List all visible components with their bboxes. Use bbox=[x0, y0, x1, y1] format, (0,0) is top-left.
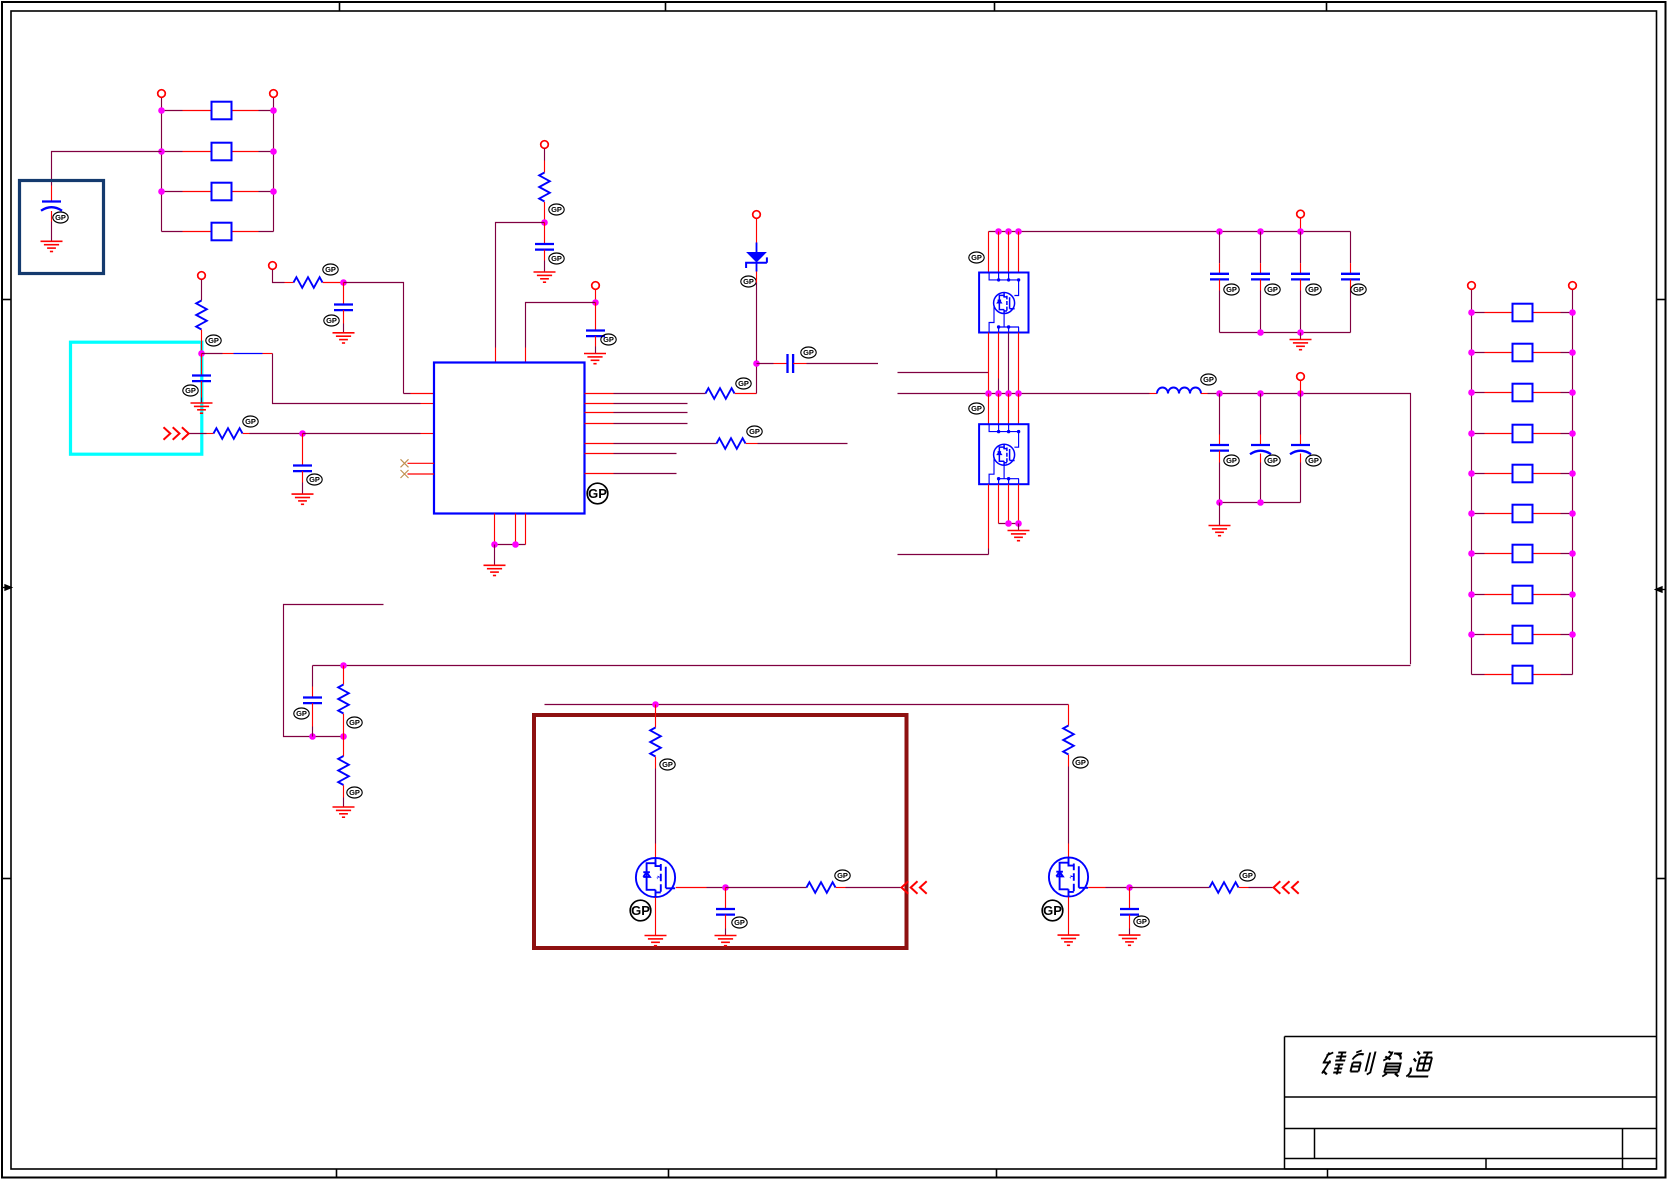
IC right pin4 wire bbox=[585, 423, 614, 425]
resistor R8 bbox=[338, 666, 349, 737]
ground (C2) bbox=[333, 333, 355, 343]
ground (C16) bbox=[715, 936, 737, 946]
ladder junction dots row 7 bbox=[1468, 550, 1475, 557]
wire R13 to connector bbox=[1239, 887, 1249, 889]
frame zone ticks bottom bbox=[337, 1169, 997, 1179]
ground (navy box) bbox=[41, 241, 63, 251]
transistor module U2 bbox=[979, 273, 1028, 333]
wire cap bottom rail lower group bbox=[1220, 502, 1301, 504]
wire node B to IC pin2 (mixed colors) bbox=[202, 354, 435, 404]
label U3 bbox=[969, 403, 984, 414]
wire cap bottom rail top group bbox=[1220, 332, 1351, 334]
capacitor C8 bbox=[1210, 232, 1229, 333]
resistor RL7 bbox=[1472, 545, 1573, 563]
ground (Q1) bbox=[645, 936, 667, 946]
wire R6 to node G bbox=[735, 393, 757, 395]
IC right pin7 wire bbox=[585, 473, 614, 475]
terminal J6 bbox=[592, 282, 600, 290]
title block bbox=[1285, 1037, 1657, 1179]
ground (top cap group) bbox=[1290, 340, 1312, 350]
frame zone ticks top bbox=[340, 3, 1327, 12]
IC bottom pins bbox=[495, 514, 526, 545]
IC right pin1 wire bbox=[585, 393, 614, 395]
label C13 bbox=[1265, 455, 1280, 466]
wire Q1 gate to node I bbox=[676, 887, 707, 889]
op-amp U1 main IC body bbox=[434, 363, 585, 514]
wire node J to R13 bbox=[1130, 887, 1210, 889]
transistor Q2 bbox=[1049, 857, 1088, 896]
ground (C5) bbox=[534, 272, 556, 282]
terminal J3 bbox=[269, 262, 277, 270]
capacitor C11 bbox=[1341, 232, 1360, 333]
label R6 bbox=[736, 378, 751, 389]
ground (C6) bbox=[584, 354, 606, 364]
resistor R12 bbox=[1063, 705, 1074, 858]
capacitor C9 bbox=[1251, 232, 1270, 333]
ladder junction dots row 1 bbox=[1468, 309, 1475, 316]
resistor R3 vertical bbox=[196, 301, 207, 330]
resistor ladder rails bbox=[1472, 290, 1573, 675]
ground (C4) bbox=[292, 494, 314, 504]
node F dots bbox=[491, 541, 498, 548]
node dots top bus bbox=[995, 228, 1304, 235]
wire gate feed line y704 bbox=[545, 704, 1069, 706]
label R10 bbox=[660, 759, 675, 770]
ground (lower cap group) bbox=[1209, 526, 1231, 536]
ladder junction dots row 2 bbox=[1468, 349, 1475, 356]
wire to ground bbox=[1018, 524, 1020, 531]
label Q2 GP bbox=[1042, 900, 1063, 921]
ground (R9) bbox=[333, 807, 355, 817]
capacitor C1 (polarized, in navy box) bbox=[41, 186, 62, 242]
inductor L1 bbox=[1157, 388, 1201, 394]
node G dot bbox=[753, 360, 760, 367]
wire node D to IC top pin1 bbox=[496, 223, 545, 348]
label C17 bbox=[1134, 916, 1149, 927]
wire R11 to connector bbox=[836, 887, 846, 889]
resistor RP4 row4 bbox=[162, 223, 274, 241]
label C7 bbox=[801, 347, 816, 358]
node dots bbox=[1216, 499, 1223, 506]
node dots rail bbox=[1257, 329, 1264, 336]
capacitor C3 bbox=[192, 354, 211, 404]
frame center arrow left bbox=[3, 585, 12, 590]
node C dot bbox=[299, 430, 306, 437]
label U1 GP bbox=[587, 483, 608, 504]
IC right pin5 wire bbox=[585, 443, 614, 445]
ladder junction dots row 4 bbox=[1468, 430, 1475, 437]
node B dot bbox=[198, 350, 205, 357]
wire Q2 source to ground bbox=[1068, 897, 1070, 935]
capacitor C10 bbox=[1291, 232, 1310, 333]
node H dot bbox=[652, 701, 659, 708]
ground (U3) bbox=[1008, 531, 1030, 541]
capacitor C7 horizontal bbox=[757, 354, 879, 373]
wire R5 to node D bbox=[544, 202, 546, 223]
wire J5 to R5 bbox=[544, 149, 546, 161]
wire to ground bbox=[1300, 333, 1302, 340]
transistor module U3 bbox=[979, 424, 1028, 484]
ground (Q2) bbox=[1058, 935, 1080, 945]
wire bottom pin tie bbox=[495, 544, 526, 546]
wire to ground bbox=[1219, 503, 1221, 526]
label C16 bbox=[732, 917, 747, 928]
resistor R6 bbox=[706, 388, 735, 399]
resistor RL1 bbox=[1472, 304, 1573, 322]
output chevrons <<< bbox=[902, 881, 927, 893]
frame zone ticks left bbox=[3, 300, 12, 879]
capacitor C13 polarized bbox=[1250, 394, 1271, 503]
wire J4 to R3 bbox=[201, 280, 203, 301]
diode D1 zener bbox=[746, 243, 767, 272]
resistor RP1 row1 bbox=[162, 102, 274, 120]
wire feedback line y604 bbox=[284, 605, 384, 737]
wire Q1 source to ground bbox=[655, 897, 657, 935]
resistor RP2 row2 bbox=[162, 143, 274, 161]
ladder junction dots row 5 bbox=[1468, 470, 1475, 477]
wire node C to IC pin3 bbox=[303, 433, 421, 435]
wire Q2 gate to node J bbox=[1088, 887, 1105, 889]
label C5 bbox=[549, 253, 564, 264]
resistor R2 bbox=[294, 277, 323, 288]
label R4 bbox=[243, 416, 258, 427]
IC right pin6 wire bbox=[585, 453, 614, 455]
title text 緯創資通 bbox=[1320, 1051, 1435, 1077]
label R8 bbox=[347, 717, 362, 728]
dark red highlight box bbox=[534, 715, 907, 948]
wire dangling upper left of modules bbox=[898, 372, 989, 374]
resistor RL5 bbox=[1472, 465, 1573, 483]
terminal J10 bbox=[1468, 282, 1476, 290]
no-connect X marks bbox=[401, 459, 409, 467]
terminal J8 bbox=[1297, 210, 1305, 218]
wire J7 to D1 bbox=[756, 219, 758, 243]
label L1 bbox=[1201, 374, 1216, 385]
resistor R11 bbox=[807, 882, 836, 893]
input chevrons >>> bbox=[164, 427, 189, 439]
label C6 bbox=[601, 334, 616, 345]
wire node I to R11 bbox=[726, 887, 807, 889]
frame center arrow right bbox=[1656, 587, 1666, 592]
resistor RL3 bbox=[1472, 384, 1573, 402]
label R12 bbox=[1073, 757, 1088, 768]
resistor RL9 bbox=[1472, 626, 1573, 644]
capacitor C12 bbox=[1210, 394, 1229, 503]
wire top bus bbox=[989, 231, 1351, 233]
ladder junction dots row 6 bbox=[1468, 510, 1475, 517]
capacitor C6 bbox=[586, 303, 605, 354]
label C11 bbox=[1351, 284, 1366, 295]
label R11 bbox=[835, 870, 850, 881]
node dots divider bbox=[340, 662, 347, 669]
resistor R4 bbox=[214, 428, 243, 439]
capacitor C2 bbox=[334, 283, 353, 333]
label C8 bbox=[1224, 284, 1239, 295]
wire J9 stub bbox=[1300, 380, 1302, 393]
node dots SW bus bbox=[985, 390, 1304, 397]
wires SW bus to module U3 top bbox=[989, 394, 1019, 425]
label C2 bbox=[324, 315, 339, 326]
label U2 bbox=[969, 252, 984, 263]
wire R7 right bbox=[746, 443, 758, 445]
transistor Q1 bbox=[636, 858, 675, 897]
wire R3 to node B bbox=[201, 330, 203, 354]
node D dot bbox=[541, 219, 548, 226]
label R3 bbox=[206, 335, 221, 346]
terminal J9 bbox=[1297, 373, 1305, 381]
node E dot bbox=[592, 299, 599, 306]
terminal J4 bbox=[198, 272, 206, 280]
node I dot bbox=[722, 884, 729, 891]
node A dot bbox=[340, 279, 347, 286]
ladder junction dots row 3 bbox=[1468, 389, 1475, 396]
label C9 bbox=[1265, 284, 1280, 295]
label C15 bbox=[294, 708, 309, 719]
label R13 bbox=[1240, 870, 1255, 881]
ladder junction dots row 8 bbox=[1468, 591, 1475, 598]
wire J8 stub bbox=[1300, 218, 1302, 232]
wire node E to IC top pin2 bbox=[526, 303, 596, 348]
wire long output line y664 bbox=[313, 665, 1411, 667]
wire node A to IC pin1 bbox=[344, 283, 404, 390]
capacitor C5 bbox=[535, 223, 554, 273]
label R5 bbox=[549, 204, 564, 215]
wire SW bus bbox=[898, 393, 1150, 395]
resistor R9 bbox=[338, 737, 349, 808]
IC right pin3 wire bbox=[585, 412, 614, 414]
ground (U1) bbox=[484, 565, 506, 575]
wire U3 source tie bbox=[999, 523, 1019, 525]
wire bank row2 to navy box bbox=[52, 152, 162, 186]
capacitor C4 bbox=[293, 434, 312, 495]
wire D1 to node G bbox=[756, 272, 758, 283]
navy highlight box bbox=[20, 181, 104, 274]
resistor R10 bbox=[650, 705, 661, 858]
wire chevrons to R4 bbox=[190, 433, 207, 435]
capacitor C17 bbox=[1120, 888, 1139, 936]
label Q1 GP bbox=[630, 900, 651, 921]
output chevrons <<< right bbox=[1274, 881, 1299, 893]
label C12 bbox=[1224, 455, 1239, 466]
wire J3 to R2 bbox=[273, 270, 285, 283]
terminal J11 bbox=[1569, 282, 1577, 290]
wire to ground bbox=[494, 545, 496, 566]
junction dots on rails bbox=[158, 107, 277, 195]
label C10 bbox=[1306, 284, 1321, 295]
capacitor C15 bbox=[303, 666, 322, 737]
resistor RL8 bbox=[1472, 586, 1573, 604]
label C1 bbox=[53, 212, 68, 223]
label C4 bbox=[307, 474, 322, 485]
label R9 bbox=[347, 787, 362, 798]
resistor R7 bbox=[717, 438, 746, 449]
label C3 bbox=[183, 385, 198, 396]
resistor RL4 bbox=[1472, 425, 1573, 443]
label D1 bbox=[741, 276, 756, 287]
label R7 bbox=[747, 426, 762, 437]
terminal J7 bbox=[753, 211, 761, 219]
resistor RP3 row3 bbox=[162, 183, 274, 201]
wires module U2 to SW bus bbox=[989, 333, 1019, 394]
label R2 bbox=[323, 264, 338, 275]
wire R2 to node bbox=[323, 282, 344, 284]
capacitor C14 polarized bbox=[1290, 394, 1311, 503]
wire J6 to node E bbox=[595, 290, 597, 303]
label C14 bbox=[1306, 455, 1321, 466]
resistor R5 vertical bbox=[539, 173, 550, 202]
wire L1 to right corner bbox=[1201, 393, 1208, 395]
wires bus to module U2 top bbox=[989, 232, 1019, 273]
cyan highlight box bbox=[71, 342, 202, 454]
resistor pack bank: left rail wire bbox=[162, 98, 274, 232]
ground (C3) bbox=[191, 403, 213, 413]
wires module U3 bottom bbox=[989, 484, 1019, 554]
ground (C17) bbox=[1119, 935, 1141, 945]
terminal J5 bbox=[541, 141, 549, 149]
node J dot bbox=[1126, 884, 1133, 891]
terminal J1 bbox=[158, 90, 166, 98]
wire dangling lower left of modules bbox=[898, 554, 989, 556]
node dots bbox=[1005, 520, 1012, 527]
resistor RL2 bbox=[1472, 344, 1573, 362]
terminal J2 bbox=[270, 90, 278, 98]
IC no-connect pin stubs bbox=[408, 463, 435, 474]
frame zone ticks right bbox=[1657, 300, 1666, 879]
IC right pin2 wire bbox=[585, 403, 614, 405]
resistor RL10 bbox=[1472, 666, 1573, 684]
resistor R13 bbox=[1210, 882, 1239, 893]
ladder junction dots row 9 bbox=[1468, 631, 1475, 638]
capacitor C16 bbox=[716, 888, 735, 936]
resistor RL6 bbox=[1472, 505, 1573, 523]
wire R4 to node C bbox=[243, 433, 250, 435]
